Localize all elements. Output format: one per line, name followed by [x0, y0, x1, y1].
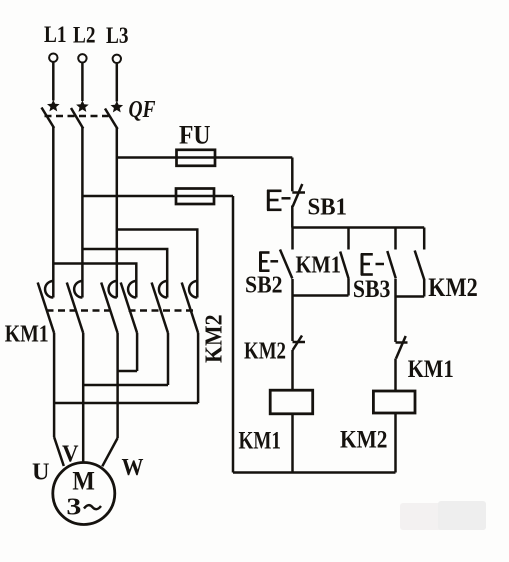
svg-text:W: W	[122, 455, 144, 481]
svg-text:U: U	[32, 460, 50, 486]
svg-text:KM2: KM2	[244, 339, 286, 365]
svg-text:KM2: KM2	[340, 427, 388, 454]
svg-text:SB2: SB2	[245, 273, 283, 299]
svg-text:KM1: KM1	[239, 426, 282, 455]
svg-text:L3: L3	[106, 23, 129, 48]
svg-text:L1: L1	[44, 22, 67, 47]
svg-text:QF: QF	[129, 97, 156, 123]
svg-text:3: 3	[66, 495, 81, 521]
svg-text:KM1: KM1	[296, 253, 342, 279]
svg-text:V: V	[62, 442, 79, 468]
svg-text:KM1: KM1	[5, 322, 49, 348]
svg-text:SB1: SB1	[308, 195, 348, 221]
svg-text:SB3: SB3	[353, 274, 391, 303]
svg-text:L2: L2	[73, 23, 96, 48]
svg-text:FU: FU	[179, 121, 211, 150]
svg-text:KM1: KM1	[408, 354, 454, 383]
svg-text:KM2: KM2	[428, 273, 478, 302]
svg-text:KM2: KM2	[202, 315, 228, 364]
svg-text:M: M	[72, 467, 95, 496]
